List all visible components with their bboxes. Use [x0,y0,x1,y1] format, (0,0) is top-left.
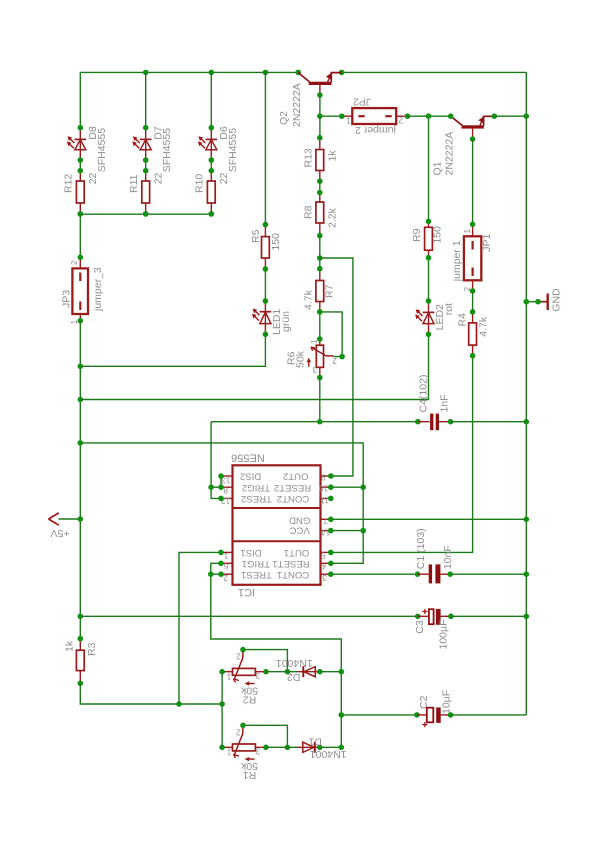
emission arrows LED2 [415,309,423,321]
svg-text:4.7k: 4.7k [302,289,314,310]
IC IC1 NE556 body [233,465,321,585]
wire: R1 wiper loop to D1 anode node [240,723,290,751]
resistor R7 [316,266,324,315]
wire: D1 to timing riser [320,745,344,751]
svg-text:3: 3 [255,671,260,681]
capacitor C4 1nF [418,414,454,431]
svg-text:jumper 2: jumper 2 [355,124,397,136]
svg-text:OUT2: OUT2 [283,471,309,482]
resistor R4 [469,309,477,358]
diode D1 1N4001 [298,742,323,753]
IR diode D6 [206,125,218,163]
svg-text:GND: GND [289,514,310,525]
svg-text:IC1: IC1 [238,586,255,598]
svg-text:3: 3 [255,747,260,757]
svg-text:2N2222A: 2N2222A [444,132,456,176]
wire: RESET2 pin 10 to VCC riser [328,484,366,490]
wire: +5V rail to C3 [80,614,420,620]
svg-text:VCC: VCC [290,525,310,536]
junction dot LED2 column on JP2 net [426,113,432,119]
wire: Q1 emitter to right rail [494,115,526,117]
wire: OUT1 pin 5 to JP1/R4 column [328,356,473,556]
svg-text:R7: R7 [323,284,335,298]
IC1 pin names power [289,514,310,535]
svg-text:2: 2 [69,260,79,265]
svg-text:1: 1 [226,672,231,682]
wire: R4 top to JP1 pin 2 [472,291,474,312]
wire: R2.1/R1.1 riser [221,672,223,748]
svg-text:rot: rot [443,303,455,315]
resistor R8 [316,190,324,239]
wire: R3 bottom to pots bus [80,683,222,704]
svg-text:2: 2 [236,652,241,662]
junction dots on +5V rail [78,364,84,620]
svg-text:NE556: NE556 [231,451,265,463]
transistor Q1 2N2222A [448,113,497,141]
wire: column D8/R12 [79,72,81,170]
svg-text:CONT1: CONT1 [277,569,310,580]
resistor R13 [316,135,324,184]
svg-text:50k: 50k [240,760,258,772]
wire: C2 right to GND rail corner [451,714,527,716]
svg-text:150: 150 [431,226,443,244]
trimmer R2 50k [219,651,268,686]
svg-text:11: 11 [320,496,329,506]
wire: column D7/R11 [145,72,147,170]
junction dot OUT2 node [317,255,323,261]
svg-text:1: 1 [346,116,351,126]
svg-text:150: 150 [270,233,282,251]
svg-text:CONT2: CONT2 [277,493,310,504]
svg-text:9: 9 [321,472,326,482]
svg-text:+5V: +5V [51,527,70,539]
svg-text:C1 (103): C1 (103) [415,528,427,569]
svg-text:RESET2: RESET2 [274,482,311,493]
wire: C3 right to GND rail [451,615,526,617]
wire: Q1 base down to JP1 pin 1 [472,139,474,224]
svg-text:10: 10 [319,484,329,494]
svg-text:OUT1: OUT1 [284,547,310,558]
svg-text:1: 1 [462,229,472,234]
svg-text:5: 5 [321,550,326,560]
wire: R13 to R8 [319,181,321,192]
pin 11 CONT2 open pin dot [328,496,334,502]
wire: LED1 to R5 [264,269,266,301]
svg-text:1: 1 [69,320,79,325]
svg-text:DIS1: DIS1 [240,547,261,558]
svg-text:D2: D2 [287,671,301,683]
IC1 pin numbers left [221,476,231,584]
ground symbol GND [524,294,548,311]
svg-text:R4: R4 [456,313,468,327]
IR diode D8 [75,125,87,163]
IC1 pin numbers right [319,472,331,583]
svg-text:1nF: 1nF [439,394,451,412]
wire: top rail right part (emitter to right rail) [342,71,527,73]
svg-text:DIS2: DIS2 [240,471,261,482]
svg-text:grün: grün [280,311,292,332]
svg-text:R5: R5 [250,229,262,243]
junction dot Q2-base/JP2/R13 node [317,113,323,119]
jumper JP2 [339,108,410,124]
IR diode D7 [140,125,152,163]
plus sign of C2 [422,722,427,727]
wire: DIS1 pin 1 down to pots bus [179,550,224,704]
wire: C4 right plate to GND rail [451,421,527,423]
svg-text:Q2: Q2 [278,111,290,125]
svg-text:D1: D1 [308,736,322,748]
svg-text:10µF: 10µF [441,690,453,714]
svg-text:2N2222A: 2N2222A [291,83,303,127]
wire: LED1 cathode to +5V rail [80,334,265,366]
transistor Q2 2N2222A [298,73,341,98]
emission arrows D8 [67,136,75,148]
svg-text:R3: R3 [86,642,98,656]
wire: +5V to RESET/VCC riser [80,443,363,566]
svg-text:10nF: 10nF [442,545,454,569]
wire: IR array bottom bus [80,213,211,215]
jumper JP3 [72,254,88,323]
svg-text:C2: C2 [418,695,430,709]
svg-text:22: 22 [152,172,164,184]
svg-text:jumper_3: jumper_3 [92,267,104,312]
svg-text:1: 1 [309,339,319,344]
resistor R10 [207,168,215,217]
svg-text:1k: 1k [326,150,338,162]
svg-text:2: 2 [398,115,403,125]
svg-text:JP1: JP1 [481,234,493,252]
wire: C4 net horizontal (TRIG2/TRES2/DIS2 to C4) [211,419,421,425]
wire: JP2 node down to R13 [319,116,321,138]
wire: from IR bus down to JP3 pin 2 [79,214,81,257]
svg-text:R13: R13 [302,148,314,167]
svg-text:TRES1: TRES1 [241,569,272,580]
svg-text:C4(102): C4(102) [417,375,429,413]
svg-text:SFH4555: SFH4555 [227,128,239,173]
svg-text:R8: R8 [302,205,314,219]
jumper JP1 [464,222,481,294]
wire: pins 13-8-12 tie bracket [208,422,224,502]
LED LED2 (rot) [423,298,435,337]
svg-text:4.7k: 4.7k [477,316,489,337]
svg-text:50k: 50k [240,684,258,696]
wire: OUT2 pin 9 up to R8/R7 node [320,258,353,479]
wire: TRIG1 pin 6 / TRES1 pin 2 to timing node [208,561,341,748]
svg-text:1k: 1k [63,640,75,652]
svg-text:SFH4555: SFH4555 [161,128,173,173]
resistor R9 [425,219,433,261]
svg-text:JP3: JP3 [61,290,73,308]
svg-text:100µF: 100µF [438,620,450,650]
svg-text:R12: R12 [63,174,75,193]
wire: VCC pin 14 to riser [328,528,366,534]
svg-text:R10: R10 [194,174,206,193]
capacitor C2 10uF electrolytic [417,707,453,723]
svg-text:7: 7 [323,516,328,526]
IC1 pin names block 2 [240,471,311,504]
wire: R9 top to JP2 pin2 net [428,116,430,221]
svg-text:Q1: Q1 [431,161,443,175]
svg-text:TRIG2: TRIG2 [242,482,270,493]
wire: Q2 base down to JP2 junction [319,95,321,116]
wire: R1 pin3 to D1 [266,746,298,748]
svg-text:2.2k: 2.2k [326,207,338,228]
emission arrows D6 [198,136,206,148]
resistor R3 [76,636,84,686]
emission arrows D7 [132,136,140,148]
wire: GND pin 7 to right rail [328,517,526,523]
IC1 right pin stubs (9,10,11,7,14,5,4,3) [321,476,331,574]
wire: top rail (Q2 collector/emitter net), left part [80,71,298,73]
resistor R11 [142,168,150,217]
diode D2 1N4001 [298,666,323,677]
plus sign of C3 [422,609,427,614]
trimmer R6 50k [307,336,334,380]
junction dots on top rail [143,70,345,76]
wire: R2 pin3 to D2 [266,671,298,673]
junction dots on right rail [524,113,530,619]
junction dots on pots bus [176,701,225,707]
LED LED1 (gruen) [260,298,272,337]
svg-text:TRES2: TRES2 [241,493,272,504]
svg-text:SFH4555: SFH4555 [96,128,108,173]
svg-text:C3: C3 [414,620,426,634]
svg-text:jumper 1: jumper 1 [451,240,463,282]
trimmer R1 50k [219,727,268,762]
capacitor C3 100uF electrolytic [418,609,454,625]
wire: CONT1 pin 3 to C1 [328,571,420,577]
resistor R12 [76,168,84,217]
wire: R7 bottom to R6 top [319,312,321,339]
svg-text:6: 6 [223,562,228,572]
svg-text:22: 22 [87,172,99,184]
wire: Q2 base junction to JP2 pin 1 [320,115,342,117]
svg-text:1N4001: 1N4001 [276,657,313,669]
wire: D2 to timing riser [320,669,344,675]
IC1 pin names block 1 [240,547,309,580]
resistor R5 [262,222,270,272]
wire: R8 to OUT2 node and R7 [319,236,321,269]
svg-text:TRIG1: TRIG1 [242,558,270,569]
wire: column D6/R10 [210,72,212,170]
svg-text:R9: R9 [411,228,423,242]
wire: timing node to C2 [339,712,420,718]
wire: R5 top to top rail [264,72,266,224]
wire: R6 bottom to C4 net [319,378,321,422]
wire: R2 wiper loop to D2 anode node [240,647,290,675]
svg-text:R11: R11 [128,174,140,193]
wire: JP2 pin 2 to Q1 collector [408,115,451,117]
svg-text:3: 3 [312,365,317,375]
wire: LED2 cathode to +5V rail [80,334,428,399]
svg-text:22: 22 [218,172,230,184]
IC1 left pin stubs (13,8,12,1,6,2) [221,476,233,574]
svg-text:3: 3 [322,573,327,583]
svg-text:1: 1 [223,551,228,561]
svg-text:2: 2 [462,287,472,292]
emission arrows LED1 [252,309,260,321]
svg-text:RESET1: RESET1 [272,558,309,569]
capacitor C1 10nF (103) [418,564,454,583]
wire: +5V left rail [79,321,81,639]
wire: LED2 to R9 [428,258,430,301]
svg-text:JP2: JP2 [353,95,371,107]
supply +5V symbol [49,513,81,525]
junction dots on IR bottom bus [78,211,215,217]
svg-text:GND: GND [551,288,563,312]
svg-text:1: 1 [226,748,231,758]
svg-text:4: 4 [321,561,326,571]
wire: R6 wiper to R7-bottom node [317,309,345,359]
svg-text:2: 2 [223,573,228,583]
svg-text:2: 2 [236,727,241,737]
wire: right rail GND net [525,72,527,715]
svg-text:50k: 50k [295,350,307,368]
wire: C1 right plate to GND rail [450,573,526,575]
